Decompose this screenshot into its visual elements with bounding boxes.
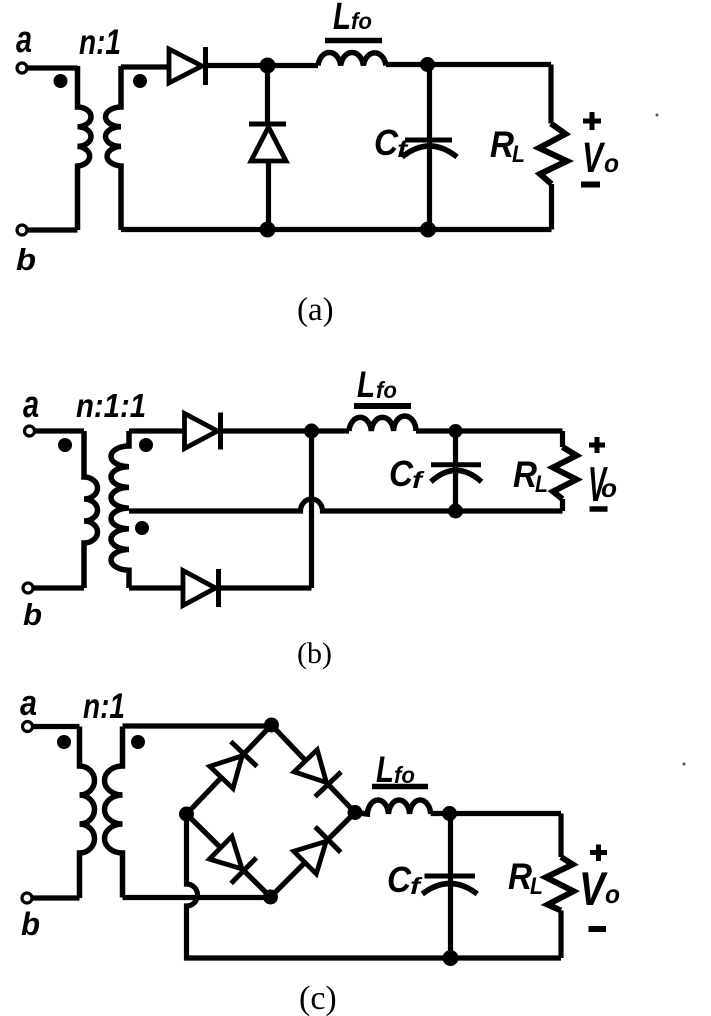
node bridge top vertex [264,718,279,733]
terminal a [23,722,33,732]
diode D3 (upper) [185,414,218,449]
wire secondary bottom to diode D4 [129,585,183,590]
svg-text:o: o [605,879,620,909]
svg-text:b: b [23,597,42,632]
svg-text:f: f [412,467,425,493]
speck circuit c [683,763,686,766]
secondary polarity dot [133,74,147,88]
svg-text:n:1:1: n:1:1 [76,387,146,424]
capacitor Cf curved plate [402,146,457,157]
resistor RL bottom lead [560,499,565,511]
svg-text:L: L [530,873,543,900]
primary polarity dot [54,74,68,88]
diode D6 (upper right) [294,750,326,783]
wire b to transformer [32,895,80,900]
wire Lfo to RL top [386,62,551,67]
wire secondary top to bridge top [123,723,272,728]
capacitor Cf lead [427,65,432,230]
diode D2 anode lead [266,161,271,230]
primary polarity dot [57,735,71,749]
center tap wire with hop [129,499,563,511]
svg-text:b: b [16,242,36,277]
node Cf top [442,806,457,821]
svg-text:L: L [333,0,351,38]
upper secondary polarity dot [139,438,153,452]
svg-text:V: V [582,134,605,182]
svg-text:b: b [21,906,40,942]
wire D4 to vertical join [219,585,312,590]
wire b to transformer [27,227,78,232]
resistor RL zigzag [539,124,567,185]
svg-text:R: R [513,454,537,495]
svg-text:C: C [387,859,412,900]
svg-text:n:1: n:1 [79,23,121,62]
svg-text:f: f [410,873,423,899]
capacitor Cf lead [448,814,453,959]
node bridge bottom vertex [263,890,278,905]
node bridge right vertex [348,805,363,820]
capacitor Cf curved plate [422,884,477,895]
svg-text:R: R [490,124,514,165]
diode D2 triangle [251,127,286,161]
bridge edge bottom-left [187,814,271,897]
terminal b [22,893,32,903]
bridge left vertex lead with hop over secondary wire [187,814,562,958]
node (D1 cathode / freewheel) [260,58,276,74]
wire a to transformer [27,65,78,70]
node diode outputs [304,424,319,439]
resistor RL top lead [558,814,563,858]
diode D8 (lower right) [294,841,327,874]
diode D7 (lower left) [209,836,242,869]
svg-text:fo: fo [351,8,372,34]
wire secondary top to diode D1 [121,64,169,69]
wire a to transformer [35,428,85,433]
resistor RL top lead [560,431,565,447]
wire secondary top to diode D3 [129,428,185,433]
svg-text:L: L [535,471,548,498]
minus sign [590,506,608,512]
wire D1 to node and to inductor [206,63,319,68]
svg-text:L: L [357,364,375,405]
svg-text:C: C [374,122,399,163]
svg-text:R: R [508,856,532,897]
svg-text:o: o [601,473,617,503]
svg-text:a: a [20,682,37,723]
secondary polarity dot [131,735,145,749]
resistor RL zigzag [553,447,577,499]
node D2 anode [260,222,276,238]
capacitor Cf top plate [425,874,476,879]
node Cf bottom [448,504,463,519]
transformer T3 secondary winding [105,727,123,898]
wire Lfo to RL top [431,811,561,816]
plus sign [589,437,605,453]
bridge edge top-left [187,725,272,814]
svg-text:C: C [389,453,414,494]
terminal a [17,63,27,73]
bridge edge top-right [272,725,356,813]
node bridge left vertex [179,807,194,822]
svg-text:a: a [16,19,32,61]
freewheel diode D2 lead [265,66,270,123]
resistor RL bottom lead [558,911,563,959]
transformer T2 primary winding [84,431,98,588]
minus sign [581,182,600,188]
speck top right [656,114,659,117]
svg-text:L: L [512,141,525,168]
transformer T2 secondary windings (center tapped) [111,431,129,588]
svg-text:(b): (b) [297,637,332,670]
node Cf top [420,57,435,72]
wire D3 to node [221,428,350,433]
inductor Lfo [349,416,416,431]
wire Lfo to RL top [416,428,563,433]
capacitor Cf lead [453,431,458,511]
lower secondary polarity dot [135,521,149,535]
capacitor Cf curved plate [431,470,482,481]
svg-text:a: a [23,384,39,426]
diode D2 cathode bar [249,122,286,127]
resistor RL zigzag [546,857,574,911]
wire a to transformer [33,724,80,729]
svg-text:o: o [604,148,619,178]
svg-text:fo: fo [376,377,397,403]
diode D5 (upper left) [210,756,242,789]
node Cf top [449,424,463,438]
svg-text:(c): (c) [299,980,337,1016]
wire b to transformer [33,585,84,590]
svg-text:(a): (a) [297,292,334,328]
terminal a [25,426,35,436]
svg-text:V: V [579,862,608,915]
node Cf bottom [443,950,459,966]
resistor RL bottom lead [549,184,554,230]
transformer T1 primary winding [78,66,92,230]
transformer T1 secondary winding [105,66,121,230]
diode D4 (lower) [183,571,216,606]
svg-text:n:1: n:1 [83,687,125,726]
capacitor Cf top plate [431,462,481,467]
minus sign [589,926,607,932]
plus sign [590,845,607,862]
transformer T3 primary winding [80,727,95,899]
wire secondary bottom to bridge bottom [123,895,271,900]
bridge edge bottom-right [271,813,356,898]
primary polarity dot [58,438,72,452]
inductor Lfo [318,52,386,65]
inductor Lfo [355,800,431,814]
terminal b [17,225,27,235]
terminal b [23,583,33,593]
diode D1 (series rectifier) [169,49,202,83]
bottom rail [121,227,552,232]
vertical wire joining diode outputs [309,431,314,588]
capacitor Cf top plate [405,138,452,143]
resistor RL top lead [548,65,553,124]
node Cf bottom [420,222,436,238]
plus sign [583,112,601,130]
